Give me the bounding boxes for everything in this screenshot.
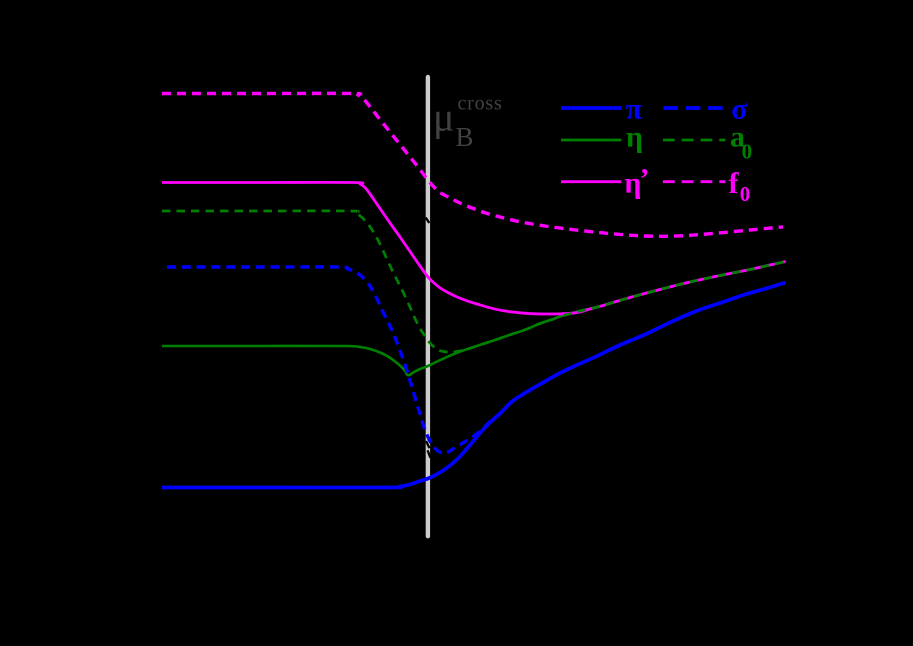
svg-text:’: ’ (640, 163, 650, 196)
curve: eta-prime (magenta solid) (162, 182, 786, 314)
vertical crossover line (426, 77, 430, 536)
curve: pi (blue solid) (162, 283, 786, 488)
legend key line: a0 (green dashed) (663, 139, 726, 142)
svg-text:B: B (456, 122, 474, 152)
legend key line: eta-prime (magenta solid) (561, 180, 621, 183)
legend key line: f0 (magenta dashed) (663, 180, 726, 183)
svg-text:μ: μ (433, 95, 454, 140)
black dash artifacts over the gray line (426, 218, 431, 458)
curve: a0 (green dashed) (162, 211, 786, 352)
curve: sigma (blue dashed) (162, 267, 786, 453)
curve: f0 (magenta dashed) (162, 93, 783, 236)
svg-text:f: f (729, 167, 740, 200)
svg-text:0: 0 (740, 182, 751, 206)
legend key line: sigma (blue dashed) (664, 106, 723, 110)
legend key line: pi (blue solid) (561, 106, 621, 110)
legend key line: eta (green solid) (561, 139, 621, 142)
svg-text:0: 0 (742, 140, 753, 164)
curve: eta (green solid) (162, 262, 786, 376)
svg-text:η: η (626, 121, 643, 154)
legend (561, 93, 752, 207)
mu_B^cross label (433, 93, 503, 153)
svg-text:cross: cross (458, 93, 503, 115)
